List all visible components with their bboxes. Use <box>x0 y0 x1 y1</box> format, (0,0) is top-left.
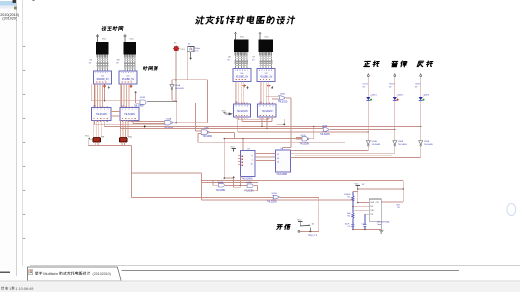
svg-text:VCC: VCC <box>265 36 270 38</box>
vertical trunk x131.6 <box>131 145 133 197</box>
wire pause column <box>389 77 404 98</box>
LED reverse <box>419 95 425 101</box>
svg-text:VCC: VCC <box>85 136 90 138</box>
svg-text:74LS04N: 74LS04N <box>424 144 433 146</box>
bus decoder U7 to counter U6 <box>261 82 269 105</box>
vcc at start switch <box>297 220 302 225</box>
7-segment display U1 <box>96 34 109 58</box>
net to pause driver <box>290 146 395 153</box>
switch pack R9 <box>85 136 105 142</box>
svg-text:74LS32N: 74LS32N <box>320 134 330 136</box>
nand gate U9A 74LS00 <box>201 127 212 139</box>
switch pack R10 <box>119 137 133 142</box>
svg-text:74LS192N: 74LS192N <box>262 111 273 113</box>
title: washing machine control circuit design <box>196 16 295 24</box>
svg-text:74LS04N: 74LS04N <box>398 144 407 146</box>
counter U5 74LS192 <box>234 102 251 119</box>
LED forward <box>366 95 372 101</box>
U12B wiring <box>240 177 257 191</box>
and gate U12A 74LS08 <box>216 181 226 192</box>
wire lamp row to corner <box>172 80 208 123</box>
svg-text:1kHz: 1kHz <box>195 48 200 50</box>
U7c left pin wires <box>238 156 241 165</box>
ground under U6 <box>243 84 249 89</box>
short counter interconnects <box>238 117 272 121</box>
capacitor C1 <box>345 223 355 228</box>
svg-text:13: 13 <box>277 161 279 163</box>
vcc rail to right <box>357 180 404 202</box>
resistor R2 <box>347 206 354 229</box>
inverter U10A buzzer driver <box>170 84 184 90</box>
svg-text:Multisim: Multisim <box>43 271 58 276</box>
or gate U16B 74LS32 <box>320 125 330 135</box>
svg-text:100kΩ: 100kΩ <box>344 194 351 196</box>
svg-text:4511BD_5V: 4511BD_5V <box>96 79 109 81</box>
vcc near U7c <box>230 146 235 151</box>
svg-text:U10B: U10B <box>424 141 430 143</box>
wire gate to start switch trunk <box>280 197 319 231</box>
555 left pin wires <box>352 202 369 210</box>
decoder U7 4511BD <box>257 69 275 82</box>
gate U15B output wire <box>147 100 176 102</box>
wire y200.0 to 555 <box>202 199 354 201</box>
wire inverter down <box>172 90 177 123</box>
svg-text:74LS00N: 74LS00N <box>203 136 213 138</box>
svg-text:2.5 V: 2.5 V <box>180 49 185 51</box>
wire LED to inverter forward <box>367 101 369 141</box>
long wire y197.4 <box>132 196 273 198</box>
inverter driver forward 74LS04 <box>366 141 380 146</box>
LED pause <box>393 95 399 101</box>
label: start <box>277 224 291 229</box>
wire into gate input A <box>91 84 140 102</box>
wire LED to inverter reverse <box>420 101 422 141</box>
wire lamp down <box>175 51 176 100</box>
nand U14A output wire <box>173 122 208 123</box>
555 bottom rail and ground <box>352 221 384 233</box>
capacitor C2 <box>362 214 370 229</box>
label: time up <box>143 66 157 70</box>
svg-text:OUT: OUT <box>376 202 380 204</box>
wire U3-U4 <box>111 112 120 117</box>
nand gate U13C 74LS20 <box>300 135 310 146</box>
status bar <box>0 281 520 292</box>
svg-text:U10B: U10B <box>398 141 404 143</box>
svg-text:LED2: LED2 <box>398 95 404 97</box>
or gate U11A 74LS32 <box>267 192 280 204</box>
svg-text:VCC: VCC <box>102 39 107 41</box>
svg-text:74LS192N: 74LS192N <box>96 114 107 116</box>
label: set time <box>101 26 123 30</box>
svg-text:74LS32N: 74LS32N <box>267 202 277 204</box>
555 output wire <box>381 202 403 209</box>
counter U7c 74LS190 <box>240 148 255 180</box>
wire y182.4 <box>202 181 259 183</box>
7-segment display U2 <box>124 34 137 58</box>
left design-toolbox panel <box>0 0 19 292</box>
svg-text:15: 15 <box>277 154 279 156</box>
long wire y126.4 <box>104 120 421 128</box>
net to reverse driver <box>290 146 420 157</box>
U12A input/output wires <box>213 180 247 186</box>
svg-text:1 10:06:49: 1 10:06:49 <box>15 287 33 291</box>
decoder U1 4511BD <box>94 71 112 84</box>
svg-text:10nF: 10nF <box>345 223 350 225</box>
bus counter U4 to pack R10 <box>120 120 128 137</box>
svg-text:U10B: U10B <box>372 141 378 143</box>
net to forward driver <box>290 146 368 150</box>
wire y128.5 from U4 to pause gate <box>121 120 323 129</box>
bus decoder U6 to counter U5 <box>236 82 244 105</box>
svg-text:74LS138D: 74LS138D <box>276 174 287 176</box>
wires into or-gate <box>266 97 279 99</box>
wire to forward driver <box>238 117 369 133</box>
or-gate U11B 74LS32 <box>278 94 288 104</box>
faint scroll mark right <box>507 204 516 216</box>
wire into gate input B <box>136 92 140 103</box>
stub U6 to pause wire <box>266 117 268 128</box>
nand output routing <box>210 132 297 178</box>
svg-text:(201020): (201020) <box>2 17 17 21</box>
svg-text:74LS04N: 74LS04N <box>372 144 381 146</box>
vcc at counter U5 clock buffer <box>222 110 229 114</box>
ground under U1 <box>103 85 110 89</box>
digital ground under V2 <box>189 52 192 60</box>
and gate U12B 74LS08 <box>244 182 254 192</box>
sheet tab <box>27 267 121 281</box>
svg-text:74LS08N: 74LS08N <box>216 190 226 192</box>
lamp X1 <box>173 42 186 51</box>
or U16B output to pause driver <box>330 129 395 130</box>
node pause pin <box>394 73 396 76</box>
svg-text:OUT1: OUT1 <box>363 84 369 86</box>
svg-text:4511BD_5V: 4511BD_5V <box>236 76 249 78</box>
stub U6 to long wire <box>261 117 262 127</box>
long wire y172.9 <box>132 172 202 174</box>
wires U4 to nand inputs <box>130 120 165 123</box>
clock buffer into counter U5 <box>229 112 233 115</box>
svg-text:U10A: U10A <box>175 84 181 87</box>
74LS20 inputs <box>296 137 302 139</box>
ground under U7 <box>267 84 273 89</box>
resistor R1 <box>344 192 358 207</box>
clock source V2 <box>188 44 200 53</box>
svg-text:(20102010): (20102010) <box>93 272 111 276</box>
svg-text:1: 1 <box>9 287 11 291</box>
rail under packs <box>88 142 131 145</box>
counter U6 74LS192 <box>258 102 277 119</box>
wire reverse column <box>415 77 430 98</box>
7-segment display U4d <box>259 32 273 56</box>
svg-text:Key = 1: Key = 1 <box>309 234 318 237</box>
trunk x201.5 <box>201 173 203 200</box>
svg-text:74LS04N: 74LS04N <box>175 88 184 90</box>
left panel bottom mark <box>0 272 10 273</box>
resistor ladder 2 <box>116 55 136 72</box>
wire V2 down to row <box>186 52 188 80</box>
555 timer U9 <box>369 199 390 226</box>
svg-text:U11A: U11A <box>272 192 278 195</box>
ground under U2 <box>129 85 136 94</box>
switch S1 <box>298 223 319 237</box>
tab strip baseline <box>122 269 460 271</box>
and-gate U15B 74LS08 <box>134 97 146 107</box>
svg-text:OUT3: OUT3 <box>415 84 421 86</box>
junction under U7c <box>224 177 235 179</box>
counter U4 74LS192 <box>120 105 139 122</box>
74LS20 output up to long wire <box>309 126 314 138</box>
bus decoder U1 to counter U3 <box>94 84 102 108</box>
svg-text:1kΩ: 1kΩ <box>347 213 351 215</box>
node forward pin <box>367 73 369 76</box>
decoder U8c 74LS138 <box>275 148 290 176</box>
long wire y180.4 to timer loop <box>201 180 403 181</box>
resistor ladder 3 <box>227 52 247 68</box>
label: forward <box>364 61 380 66</box>
svg-text:74LS20N: 74LS20N <box>300 144 310 146</box>
bus counter U3 to pack R9 <box>94 120 102 137</box>
faint long net <box>295 154 392 156</box>
svg-text:14: 14 <box>277 158 279 160</box>
7-segment display U3d <box>234 32 248 56</box>
label: reverse <box>417 61 433 67</box>
svg-text:LED3: LED3 <box>424 95 430 97</box>
svg-text:74LS08D: 74LS08D <box>134 106 144 108</box>
svg-text:4511BD_5V: 4511BD_5V <box>260 76 273 78</box>
bus decoder U2 to counter U4 <box>121 84 129 108</box>
svg-text:555_VIRTUAL: 555_VIRTUAL <box>377 221 391 224</box>
svg-text:OUT: OUT <box>396 204 401 206</box>
svg-text:VCC: VCC <box>240 36 245 38</box>
svg-text:U11B: U11B <box>280 94 286 96</box>
vcc 555 <box>355 183 365 188</box>
resistor ladder 4 <box>252 52 272 68</box>
decoder U6 4511BD <box>233 69 251 82</box>
wires U7c to U8c <box>255 154 275 161</box>
svg-text:U15B: U15B <box>140 97 146 99</box>
inverter driver reverse 74LS04 <box>419 141 433 146</box>
svg-text:74LS192N: 74LS192N <box>237 111 248 113</box>
wire forward column <box>363 77 378 98</box>
svg-text:U9A: U9A <box>205 127 210 130</box>
panel splitter and canvas edge <box>17 0 35 276</box>
wire LED to inverter pause <box>394 101 396 141</box>
svg-text:VCC: VCC <box>130 39 135 41</box>
svg-text:74LS32D: 74LS32D <box>278 102 288 104</box>
nand gate U14A 74LS00 <box>164 118 174 129</box>
svg-text:OUT2: OUT2 <box>389 84 395 86</box>
node reverse pin <box>420 73 422 76</box>
capacitor C1 lead <box>352 226 354 229</box>
inverter driver pause 74LS04 <box>393 141 407 146</box>
wire pack R9 to rail <box>88 140 92 146</box>
svg-text:74LS192N: 74LS192N <box>124 114 135 116</box>
svg-text:4511BD_5V: 4511BD_5V <box>122 79 135 81</box>
decoder U2 4511BD <box>119 71 137 84</box>
wire y124.3 from U3 <box>95 120 165 124</box>
resistor ladder 1 <box>89 55 109 72</box>
svg-text:LED1: LED1 <box>372 95 378 97</box>
counter U3 74LS192 <box>92 105 112 122</box>
junction right of U6 <box>277 119 286 125</box>
canvas bottom edge <box>30 265 520 267</box>
wire y187.3 <box>234 178 241 187</box>
nand inputs <box>196 103 345 142</box>
label: pause <box>391 61 407 67</box>
or-gate output down to decoder U8 <box>283 98 291 150</box>
